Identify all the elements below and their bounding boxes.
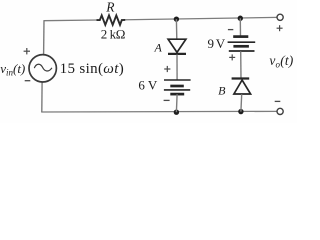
wire right branch lower — [240, 94, 243, 111]
diode A triangle — [168, 39, 186, 52]
minus sign 9V battery — [228, 29, 233, 31]
battery 9V plate long bottom — [229, 50, 255, 52]
svg-text:6 V: 6 V — [138, 78, 158, 93]
svg-text:vo(t): vo(t) — [269, 53, 293, 70]
svg-text:A: A — [154, 40, 163, 54]
wire right branch between battery and diode — [240, 51, 242, 78]
plus sign 9V battery — [229, 54, 235, 60]
battery 6V plate short — [170, 85, 184, 88]
battery 6V plate short bottom — [170, 93, 184, 96]
minus sign at source bottom — [25, 80, 31, 82]
diode A cathode bar — [168, 53, 186, 55]
node dot top middle junction — [174, 16, 179, 21]
svg-text:9 V: 9 V — [207, 36, 225, 51]
plus sign at source top — [24, 48, 30, 54]
battery 9V plate short top — [233, 35, 248, 38]
terminal bottom right open circle — [277, 108, 283, 114]
wire right branch upper — [239, 18, 241, 36]
minus sign 6V battery — [164, 99, 170, 101]
battery 9V plate short lower — [233, 45, 249, 48]
svg-text:B: B — [218, 83, 226, 97]
minus sign output — [275, 100, 281, 102]
voltage source VS circle — [29, 55, 56, 82]
battery 6V plate long top — [164, 79, 191, 81]
resistor R zigzag — [97, 15, 126, 25]
node dot top right junction — [238, 16, 243, 21]
wire middle branch lower — [175, 94, 178, 112]
terminal top right open circle — [277, 14, 283, 20]
svg-text:15 sin(ωt): 15 sin(ωt) — [60, 61, 125, 77]
battery 6V plate long lower — [164, 89, 190, 91]
svg-text:2 kΩ: 2 kΩ — [101, 27, 125, 42]
plus sign 6V battery — [164, 66, 170, 72]
battery 9V plate long — [228, 41, 256, 43]
plus sign output — [277, 25, 283, 31]
diode B cathode bar — [232, 77, 250, 79]
wire left vertical lower — [41, 82, 43, 112]
wire left vertical upper — [43, 20, 45, 55]
wire bottom horizontal — [41, 110, 277, 113]
voltage source sine wave — [34, 64, 52, 71]
svg-text:R: R — [105, 0, 115, 15]
node dot bottom right junction — [238, 109, 243, 114]
svg-text:vin(t): vin(t) — [0, 61, 25, 78]
diode B triangle — [234, 80, 251, 94]
wire middle branch upper — [175, 19, 177, 39]
wire middle branch between diode and battery — [176, 55, 178, 81]
wire top horizontal left segment — [44, 19, 99, 22]
wire top horizontal right segment — [124, 17, 278, 19]
node dot bottom middle junction — [174, 110, 179, 115]
